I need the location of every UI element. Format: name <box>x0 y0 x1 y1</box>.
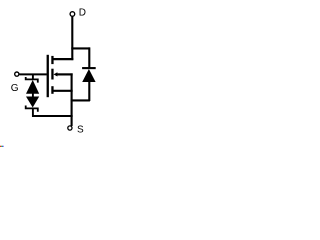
wire: gate wire down to zener stack <box>32 75 34 79</box>
Q1 source lead <box>53 90 73 92</box>
diode D1 cathode bar <box>82 67 96 69</box>
wire: zener midpoint stub <box>32 94 34 97</box>
wire: drain node branch to body diode <box>71 47 90 49</box>
terminal S (open circle) <box>68 126 72 130</box>
zener Z1 cathode bar (top) <box>25 77 39 83</box>
Q1 body arrow <box>54 72 58 76</box>
wire: diode anode down <box>88 82 90 102</box>
Q1 drain lead <box>53 58 74 60</box>
zener Z1 anode triangle (apex up) <box>26 80 39 94</box>
Q1 channel segment (drain) <box>51 56 53 64</box>
wire: G terminal to gate bar <box>19 73 46 75</box>
wire: zener bottom to source rail <box>32 115 73 117</box>
transistor Q1 gate bar <box>47 55 49 97</box>
Q1 channel segment (source) <box>51 86 53 94</box>
terminal G (open circle) <box>15 72 19 76</box>
zener Z2 cathode bar (bottom) <box>25 106 39 112</box>
terminal D (open circle) <box>70 12 75 17</box>
svg-text:G: G <box>11 83 19 94</box>
svg-text:D: D <box>79 8 86 19</box>
Q1 body lead <box>57 73 73 75</box>
wire: source rail down to S terminal <box>71 73 73 126</box>
wire: D terminal down to drain lead <box>71 17 73 61</box>
wire: diode cathode vertical <box>88 47 90 68</box>
diode D1 anode triangle <box>82 69 95 82</box>
wire: diode anode to source rail <box>71 99 90 101</box>
Q1 channel segment (body) <box>51 69 53 80</box>
wire: zener stack down <box>32 108 34 117</box>
zener Z2 anode triangle (apex down) <box>26 97 39 108</box>
svg-text:S: S <box>77 124 84 135</box>
bottom-left subpixel artifact <box>0 146 4 147</box>
